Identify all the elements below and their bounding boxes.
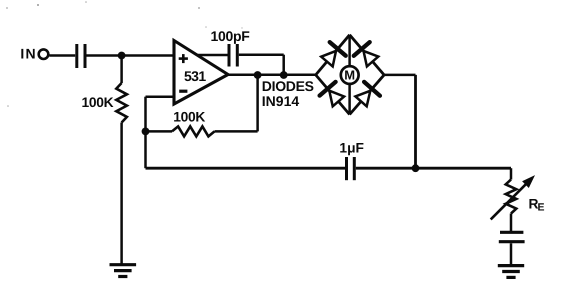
svg-text:531: 531 (184, 68, 206, 84)
svg-text:DIODES: DIODES (262, 78, 314, 94)
svg-text:IN914: IN914 (262, 93, 300, 109)
svg-text:100K: 100K (173, 110, 205, 125)
svg-text:M: M (344, 68, 355, 83)
svg-text:100K: 100K (82, 95, 114, 110)
svg-text:100pF: 100pF (211, 28, 251, 44)
svg-text:1μF: 1μF (339, 141, 364, 156)
svg-text:E: E (538, 202, 545, 214)
svg-text:IN: IN (20, 45, 36, 61)
